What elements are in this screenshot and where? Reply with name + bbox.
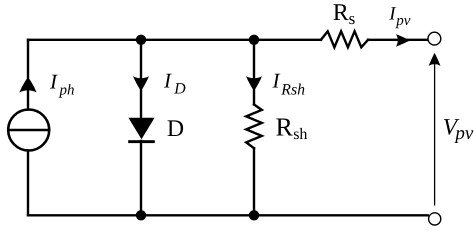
wire: Rs to output terminal <box>368 39 427 41</box>
wire Rsh branch: node B down to Rsh <box>253 40 255 105</box>
label V_pv <box>443 114 474 144</box>
wire left: current source to bottom corner <box>27 150 29 215</box>
wire bottom: corner to node C <box>28 214 141 216</box>
svg-text:ph: ph <box>59 82 75 98</box>
label I_pv <box>388 4 411 29</box>
label I_D <box>163 68 186 97</box>
resistor R_sh <box>246 105 262 149</box>
arrow I_pv (right) <box>396 34 410 47</box>
arrow I_D (down) <box>133 76 149 91</box>
resistor R_s <box>321 31 368 47</box>
wire top: node A to node B <box>141 39 254 41</box>
svg-text:I: I <box>272 68 281 92</box>
label R_sh <box>276 112 308 142</box>
svg-text:sh: sh <box>293 126 307 143</box>
label R_s <box>333 0 355 28</box>
svg-text:D: D <box>167 116 184 142</box>
node A (diode top junction) <box>136 35 146 45</box>
arrow I_Rsh (down) <box>246 76 262 91</box>
wire top: node B to Rs <box>254 39 321 41</box>
wire Rsh branch: Rsh to node D <box>253 148 255 215</box>
svg-text:R: R <box>333 0 349 26</box>
wire bottom: node D to bottom terminal <box>254 214 428 216</box>
wire left: top corner down to current source <box>27 40 29 110</box>
node B (Rsh top junction) <box>249 35 259 45</box>
current source U1 <box>8 110 49 151</box>
wire bottom: node C to node D <box>141 214 254 216</box>
terminal + (top right) <box>428 32 441 45</box>
label I_Rsh <box>272 68 306 98</box>
svg-text:pv: pv <box>453 123 474 144</box>
label I_ph <box>49 69 75 98</box>
svg-text:I: I <box>49 69 58 93</box>
arrow I_ph (up) <box>19 77 36 92</box>
diode D <box>128 118 155 143</box>
svg-text:s: s <box>349 9 356 28</box>
wire diode branch: node A down to diode <box>140 40 142 118</box>
terminal - (bottom right) <box>429 213 441 225</box>
svg-text:Rsh: Rsh <box>280 81 305 98</box>
V_pv measurement arrow (up) <box>429 53 441 206</box>
svg-text:D: D <box>173 81 186 98</box>
node D (Rsh bottom junction) <box>249 210 259 220</box>
svg-text:I: I <box>163 68 172 92</box>
wire diode branch: diode to node C <box>140 141 142 215</box>
svg-text:pv: pv <box>395 13 411 29</box>
node C (diode bottom junction) <box>136 210 146 220</box>
svg-text:R: R <box>276 112 294 141</box>
wire top: left corner to node A <box>28 40 141 41</box>
